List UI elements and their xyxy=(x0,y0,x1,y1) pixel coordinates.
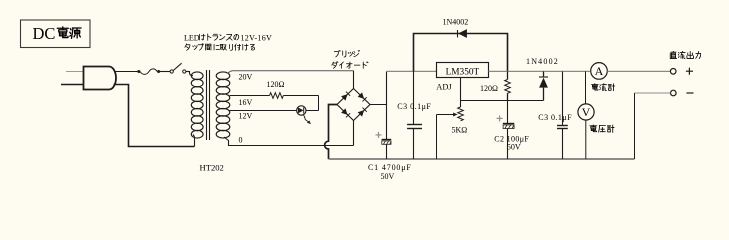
wire adj node xyxy=(461,100,544,102)
svg-text:12V: 12V xyxy=(239,111,253,120)
capacitor C3a column xyxy=(413,71,415,124)
label minus xyxy=(686,92,693,94)
fuse right dot xyxy=(157,70,160,73)
transformer T1 primary winding xyxy=(186,72,193,76)
switch lever xyxy=(173,63,181,70)
ammeter A1 xyxy=(591,63,608,80)
label plus xyxy=(686,70,693,72)
wire plug to fuse xyxy=(115,71,138,73)
capacitor C2 xyxy=(507,101,509,124)
wire bridge plus xyxy=(370,104,387,106)
wire voltmeter bottom xyxy=(585,120,587,159)
label 電圧計 xyxy=(590,125,597,132)
wire bridge bottom corner xyxy=(353,121,355,146)
transformer T1 secondary winding xyxy=(216,72,230,80)
svg-text:20V: 20V xyxy=(239,73,253,82)
wire ADJ pin xyxy=(460,78,462,108)
svg-text:0: 0 xyxy=(239,135,243,144)
wire fuse to switch xyxy=(160,71,170,73)
wire plus node column xyxy=(386,71,388,139)
svg-text:1N4002: 1N4002 xyxy=(526,57,559,66)
wire 16V tap xyxy=(230,95,270,97)
title box DC電源 xyxy=(21,20,91,48)
note line2 タップ間に取り付ける xyxy=(185,44,190,50)
bridge diamond xyxy=(337,89,370,121)
svg-text:HT202: HT202 xyxy=(200,162,224,172)
wire plug cord to transformer xyxy=(114,85,195,147)
wire bridge top corner xyxy=(353,71,355,89)
wire wiper to ground xyxy=(436,115,438,160)
svg-text:16V: 16V xyxy=(239,98,253,107)
switch left contact xyxy=(170,70,173,73)
svg-text:50V: 50V xyxy=(381,172,395,181)
diode D2 1N4002 xyxy=(543,71,545,77)
wire voltmeter top xyxy=(585,71,587,104)
capacitor C2 plus mark xyxy=(497,117,503,119)
fuse element xyxy=(140,69,157,74)
bridge diode top-left xyxy=(341,94,347,100)
capacitor C3b xyxy=(562,71,564,125)
label 電流計 xyxy=(591,84,598,91)
voltmeter V1 xyxy=(578,104,594,120)
wire ammeter to plus terminal xyxy=(607,70,670,72)
bridge diode top-right xyxy=(358,92,364,98)
bridge diode bottom-right xyxy=(358,110,364,116)
wire 12V tap xyxy=(230,110,297,112)
led LED1 xyxy=(297,106,306,115)
svg-text:LED: LED xyxy=(184,33,200,42)
ac plug body xyxy=(84,67,117,90)
svg-text:1N4002: 1N4002 xyxy=(443,17,469,26)
svg-text:50V: 50V xyxy=(507,143,521,152)
minus terminal xyxy=(671,90,677,96)
wire switch to transformer xyxy=(186,71,190,73)
label 直流出力 xyxy=(670,51,676,58)
wire corner down to led wire xyxy=(318,96,320,111)
potentiometer VR1 5K xyxy=(458,107,464,121)
regulator U1 LM350T box xyxy=(437,63,489,78)
svg-text:C1 4700μF: C1 4700μF xyxy=(368,163,412,172)
diode D1 1N4002 xyxy=(457,30,459,37)
ac plug prong upper xyxy=(66,71,84,73)
svg-text:5KΩ: 5KΩ xyxy=(452,126,468,135)
wire resistor to corner xyxy=(283,95,318,97)
plus terminal xyxy=(670,69,676,75)
wire bridge minus with hop xyxy=(325,105,337,160)
bridge diode label ダイオード xyxy=(332,62,338,69)
svg-text:C3 0.1μF: C3 0.1μF xyxy=(397,102,431,111)
svg-text:A: A xyxy=(595,64,604,78)
ground rail xyxy=(329,158,635,160)
capacitor C3a xyxy=(407,124,422,126)
wire 0 tap xyxy=(224,137,354,146)
svg-text:12V-16V: 12V-16V xyxy=(241,33,273,42)
ac plug prong lower xyxy=(61,84,84,86)
capacitor C1 plus mark xyxy=(376,134,382,136)
fuse left dot xyxy=(137,70,140,73)
switch right contact xyxy=(183,70,186,73)
wire led to corner xyxy=(306,110,319,112)
wire 20V tap to bridge xyxy=(228,71,354,74)
bridge diode label ブリッジ xyxy=(334,50,340,57)
svg-text:120Ω: 120Ω xyxy=(480,84,498,93)
svg-text:C3 0.1μF: C3 0.1μF xyxy=(538,113,572,122)
transformer T1 core xyxy=(206,70,208,140)
bridge diode bottom-left xyxy=(341,108,347,114)
wire minus terminal xyxy=(635,92,671,94)
svg-text:ADJ: ADJ xyxy=(436,82,452,91)
capacitor C1 xyxy=(382,139,392,141)
svg-text:120Ω: 120Ω xyxy=(267,80,285,89)
svg-text:LM350T: LM350T xyxy=(446,67,480,77)
resistor 120ohm adj xyxy=(507,71,509,79)
wire U1 out rail xyxy=(489,70,590,72)
wire rail to LM350T xyxy=(387,70,437,72)
potentiometer wiper arrow xyxy=(437,114,454,116)
resistor 120ohm LED xyxy=(270,93,284,99)
wire bypass diode loop xyxy=(414,34,508,72)
svg-text:DC: DC xyxy=(33,24,56,43)
wire minus to ground rail xyxy=(634,93,636,159)
svg-text:V: V xyxy=(582,105,591,119)
